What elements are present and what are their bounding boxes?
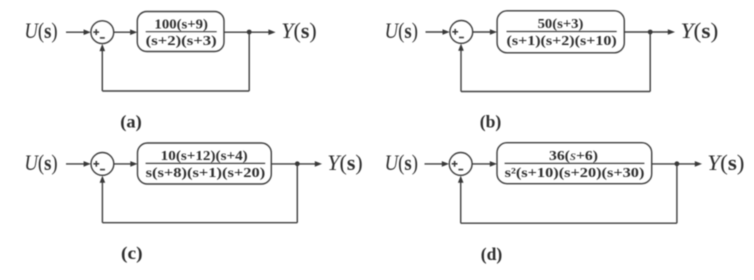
svg-text:Y(s): Y(s) — [707, 150, 744, 175]
fraction bar (b) — [507, 31, 617, 33]
junction dot (a) — [247, 30, 252, 35]
feedback wire up into summer (a) — [101, 50, 103, 92]
wire summer to block (b) — [472, 31, 491, 33]
summing junction (b) — [450, 21, 473, 44]
block G(s) (b) — [497, 11, 624, 53]
junction dot (b) — [648, 30, 653, 35]
feedback wire bottom (c) — [102, 222, 297, 224]
feedback wire down (d) — [676, 164, 678, 223]
svg-text:s(s+8)(s+1)(s+20): s(s+8)(s+1)(s+20) — [146, 165, 266, 181]
wire U(s) to summer (a) — [66, 31, 85, 33]
summing junction (c) — [91, 153, 114, 176]
fraction bar (c) — [146, 162, 266, 164]
wire summer to block (d) — [472, 163, 491, 165]
svg-text:s²(s+10)(s+20)(s+30): s²(s+10)(s+20)(s+30) — [505, 165, 645, 181]
feedback wire down (a) — [248, 32, 250, 91]
feedback wire down (c) — [296, 164, 298, 223]
svg-text:36(s+6): 36(s+6) — [549, 148, 598, 164]
svg-text:Y(s): Y(s) — [327, 150, 362, 175]
svg-text:10(s+12)(s+4): 10(s+12)(s+4) — [161, 148, 248, 164]
svg-text:(b): (b) — [480, 111, 502, 132]
wire U(s) to summer (c) — [66, 163, 85, 165]
junction dot (d) — [675, 161, 680, 166]
svg-text:(d): (d) — [481, 244, 503, 265]
wire block to output (b) — [624, 31, 669, 33]
svg-text:(s+2)(s+3): (s+2)(s+3) — [146, 33, 217, 49]
wire summer to block (a) — [113, 31, 131, 33]
minus sign (c) — [100, 169, 105, 171]
plus sign (c) — [93, 163, 99, 165]
block G(s) (d) — [497, 143, 652, 184]
feedback wire down (b) — [649, 32, 651, 92]
svg-text:U(s): U(s) — [24, 150, 57, 175]
minus sign (a) — [100, 37, 105, 39]
feedback wire bottom (a) — [102, 90, 249, 92]
feedback wire up into summer (c) — [101, 181, 103, 223]
summing junction (a) — [91, 21, 114, 44]
svg-text:50(s+3): 50(s+3) — [538, 16, 584, 32]
wire summer to block (c) — [114, 163, 132, 165]
fraction bar (a) — [146, 31, 217, 33]
svg-text:U(s): U(s) — [24, 18, 57, 43]
minus sign (d) — [458, 169, 463, 171]
feedback wire up into summer (b) — [460, 49, 462, 91]
feedback wire bottom (b) — [461, 91, 650, 93]
feedback wire bottom (d) — [461, 222, 677, 224]
block G(s) (c) — [138, 143, 272, 184]
svg-text:(a): (a) — [120, 111, 142, 132]
wire U(s) to summer (d) — [425, 163, 443, 165]
wire block to output (c) — [271, 163, 316, 165]
wire block to output (a) — [224, 31, 270, 33]
plus sign (d) — [452, 163, 458, 165]
wire U(s) to summer (b) — [426, 31, 444, 33]
fraction bar (d) — [505, 162, 645, 164]
junction dot (c) — [295, 161, 300, 166]
svg-text:100(s+9): 100(s+9) — [154, 16, 208, 32]
svg-text:U(s): U(s) — [385, 18, 418, 43]
minus sign (b) — [459, 37, 464, 39]
svg-text:(c): (c) — [121, 243, 143, 264]
svg-text:Y(s): Y(s) — [281, 18, 316, 43]
svg-text:(s+1)(s+2)(s+10): (s+1)(s+2)(s+10) — [507, 33, 617, 49]
block G(s) (a) — [137, 12, 224, 52]
plus sign (b) — [452, 31, 458, 33]
svg-text:U(s): U(s) — [385, 150, 418, 175]
summing junction (d) — [449, 153, 472, 176]
wire block to output (d) — [652, 163, 696, 165]
feedback wire up into summer (d) — [460, 181, 462, 223]
svg-text:Y(s): Y(s) — [681, 18, 719, 43]
plus sign (a) — [93, 31, 99, 33]
